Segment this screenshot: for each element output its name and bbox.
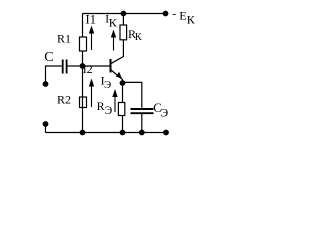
label RЭ <box>97 99 113 117</box>
node emitter junction dot <box>120 80 126 86</box>
svg-text:Э: Э <box>104 79 111 91</box>
svg-text:R2: R2 <box>57 93 71 107</box>
node CЭ bottom junction dot <box>139 130 145 136</box>
svg-text:R: R <box>97 99 105 113</box>
label IЭ <box>101 73 112 91</box>
wire CЭ to bottom rail <box>141 114 143 133</box>
label -EK <box>172 6 195 26</box>
resistor RЭ <box>118 103 124 116</box>
label CЭ <box>153 101 168 120</box>
wire emitter node to CЭ branch <box>123 82 142 107</box>
svg-text:К: К <box>135 32 143 43</box>
wire input terminal bottom drop <box>45 124 47 133</box>
node RЭ bottom junction dot <box>120 130 126 136</box>
svg-text:R1: R1 <box>57 32 71 46</box>
resistor R1 <box>80 37 87 51</box>
wire capacitor to base node <box>68 65 83 67</box>
resistor R2 <box>80 97 87 108</box>
svg-text:I2: I2 <box>83 62 93 76</box>
current arrow IЭ <box>112 89 117 112</box>
wire emitter node to RЭ <box>122 83 124 133</box>
current arrow I2 <box>89 79 94 108</box>
wire input signal horizontal <box>46 65 62 67</box>
svg-text:Э: Э <box>160 105 168 119</box>
node input terminal top dot <box>43 81 49 87</box>
svg-text:C: C <box>44 50 53 65</box>
wire R2 to bottom rail <box>82 66 84 133</box>
top supply rail wire <box>83 13 166 15</box>
bottom rail wire <box>46 132 167 134</box>
capacitor CЭ <box>131 109 154 113</box>
resistor RK <box>120 25 127 40</box>
node R2 bottom junction dot <box>80 130 86 136</box>
node base junction dot <box>80 63 86 69</box>
node bottom rail right terminal dot <box>163 130 169 136</box>
capacitor C <box>63 60 67 74</box>
wire base node to transistor base <box>83 65 111 67</box>
wire R1 branch vertical <box>82 14 84 67</box>
svg-text:-: - <box>172 6 176 20</box>
transistor VT base bar <box>110 59 112 73</box>
label IK <box>105 14 118 30</box>
svg-text:К: К <box>109 16 118 30</box>
svg-text:К: К <box>187 12 196 26</box>
wire input terminal top drop <box>45 65 47 83</box>
transistor VT collector lead <box>111 14 124 64</box>
svg-text:E: E <box>179 8 186 22</box>
current arrow IK <box>111 30 116 51</box>
transistor VT emitter lead with arrow <box>111 70 123 84</box>
node input terminal bottom dot <box>43 121 49 127</box>
current arrow I1 <box>89 26 94 51</box>
label RK <box>128 27 143 43</box>
svg-text:1: 1 <box>90 13 96 27</box>
node top rail RK junction dot <box>121 11 127 17</box>
svg-text:Э: Э <box>105 105 113 117</box>
node top rail right terminal dot <box>163 11 169 17</box>
